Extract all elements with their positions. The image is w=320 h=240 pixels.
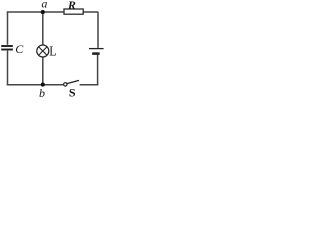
svg-text:L: L: [49, 44, 56, 59]
svg-text:C: C: [15, 42, 24, 56]
svg-text:R: R: [67, 0, 76, 12]
svg-text:b: b: [39, 86, 45, 99]
svg-text:S: S: [69, 85, 76, 99]
svg-text:a: a: [41, 0, 47, 10]
